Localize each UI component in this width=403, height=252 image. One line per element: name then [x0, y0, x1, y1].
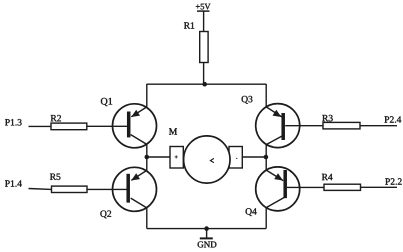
wire P1.3 to R2 — [29, 125, 52, 127]
wire top rail — [147, 83, 267, 85]
wire node A to motor left terminal — [147, 156, 170, 158]
wire +5V to R1 — [203, 11, 205, 31]
node P1.4 — [5, 180, 22, 186]
wire Q2 collector to bottom rail — [146, 208, 148, 229]
transistor Q1 — [101, 98, 157, 148]
wire rail to Q3 emitter — [265, 84, 267, 107]
junction node A (left bridge midpoint) — [145, 155, 150, 160]
transistor Q3 — [242, 96, 300, 148]
motor minus polarity mark — [236, 157, 238, 159]
transistor Q4 — [246, 167, 300, 216]
wire R2 to Q1 base — [87, 125, 127, 127]
wire motor right terminal to node B — [242, 156, 266, 158]
wire node A to Q2 emitter — [146, 157, 148, 171]
resistor R3 — [322, 115, 360, 129]
wire Q4 base to R4 — [287, 186, 324, 188]
resistor R5 — [50, 174, 87, 193]
resistor R1 — [184, 22, 208, 62]
wire bottom rail — [147, 228, 266, 230]
resistor R2 — [51, 115, 87, 130]
transistor Q2 — [100, 167, 156, 218]
ground — [198, 229, 217, 248]
wire node B to Q4 emitter — [265, 157, 267, 171]
node P1.3 — [5, 119, 22, 125]
motor M body — [184, 136, 230, 183]
power +5V symbol — [196, 4, 211, 11]
wire R5 to Q2 base — [87, 188, 127, 190]
wire R3 to P2.4 — [360, 125, 397, 127]
motor M right brush terminal — [229, 147, 242, 169]
junction node B (right bridge midpoint) — [264, 155, 269, 160]
wire Q1 collector to node A — [146, 144, 148, 157]
motor M left brush terminal — [170, 147, 183, 169]
wire P1.4 to R5 — [29, 188, 52, 191]
resistor R4 — [322, 174, 361, 191]
motor reference label M — [169, 128, 177, 134]
wire Q3 collector to node B — [265, 144, 267, 157]
node P2.2 — [385, 178, 401, 184]
wire rail to Q1 emitter — [146, 84, 148, 107]
node P2.4 — [384, 116, 401, 122]
wire R4 to P2.2 — [361, 186, 398, 188]
wire R1 to top rail — [203, 63, 205, 85]
wire Q3 base to R3 — [285, 125, 323, 127]
wire Q4 collector to bottom rail — [265, 207, 267, 228]
junction GND node — [204, 226, 209, 231]
motor plus polarity mark — [175, 155, 178, 158]
junction top rail — [202, 82, 207, 87]
